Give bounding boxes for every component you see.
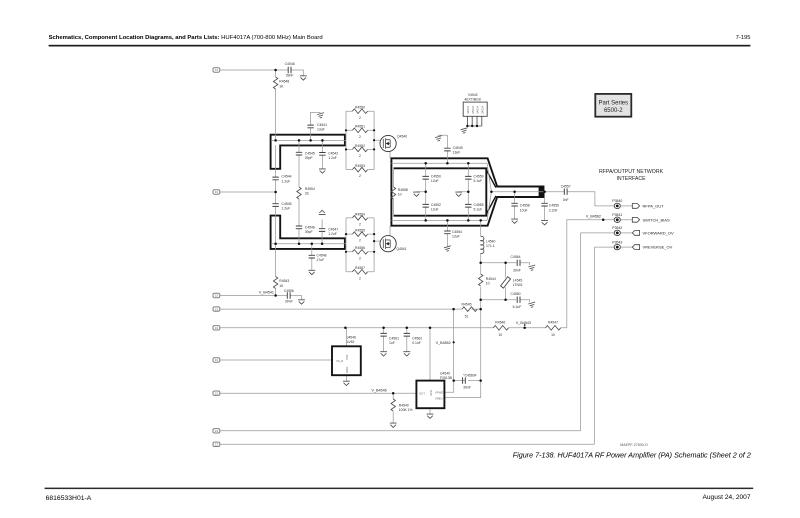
svg-text:*C4560F: *C4560F — [463, 374, 476, 378]
svg-text:6816533H01-A: 6816533H01-A — [46, 495, 92, 502]
svg-text:R4550: R4550 — [355, 106, 365, 110]
svg-text:R4546: R4546 — [495, 321, 505, 325]
svg-text:3A/CA: 3A/CA — [476, 106, 480, 114]
svg-text:2: 2 — [359, 174, 361, 178]
svg-text:R4543: R4543 — [279, 279, 289, 283]
svg-text:2: 2 — [359, 135, 361, 139]
svg-text:6500-2: 6500-2 — [604, 108, 623, 114]
svg-text:2: 2 — [359, 239, 361, 243]
svg-text:Q4541: Q4541 — [396, 247, 406, 251]
svg-text:C4564: C4564 — [511, 255, 521, 259]
svg-text:F2613B: F2613B — [440, 376, 453, 380]
svg-text:1K: 1K — [279, 284, 284, 288]
svg-text:Schematics, Component Location: Schematics, Component Location Diagrams,… — [49, 35, 323, 41]
svg-text:V_B4546: V_B4546 — [372, 389, 387, 393]
svg-text:INTERFACE: INTERFACE — [616, 176, 646, 182]
svg-text:1.2uF: 1.2uF — [282, 207, 291, 211]
svg-text:RFPA/OUTPUT NETWORK: RFPA/OUTPUT NETWORK — [599, 169, 664, 175]
svg-text:3A/CA: 3A/CA — [471, 106, 475, 114]
svg-text:R4548: R4548 — [279, 80, 289, 84]
svg-text:Q4540: Q4540 — [397, 134, 407, 138]
svg-text:C4544: C4544 — [282, 175, 292, 179]
svg-text:VREVERSE_OV: VREVERSE_OV — [643, 245, 673, 250]
svg-text:C4548: C4548 — [317, 253, 327, 257]
svg-text:17L-1: 17L-1 — [486, 244, 495, 248]
svg-text:10: 10 — [498, 333, 502, 337]
svg-text:P3543: P3543 — [612, 240, 622, 244]
svg-text:VFORWARD_OV: VFORWARD_OV — [643, 230, 674, 235]
svg-text:13uF: 13uF — [452, 234, 460, 238]
svg-text:V_B4552: V_B4552 — [436, 341, 451, 345]
svg-text:R4547: R4547 — [548, 321, 558, 325]
svg-text:2: 2 — [359, 223, 361, 227]
svg-text:C4560: C4560 — [511, 292, 521, 296]
svg-text:1.2uF: 1.2uF — [282, 179, 291, 183]
svg-text:R4552: R4552 — [355, 144, 365, 148]
svg-text:C4555: C4555 — [474, 203, 484, 207]
svg-text:3nF: 3nF — [563, 198, 569, 202]
svg-text:C4557: C4557 — [561, 184, 571, 188]
svg-text:2: 2 — [359, 276, 361, 280]
svg-text:1.2uF: 1.2uF — [328, 156, 337, 160]
svg-text:C4547: C4547 — [328, 228, 338, 232]
svg-text:4EXT/B/1K: 4EXT/B/1K — [464, 98, 482, 102]
svg-text:R4551: R4551 — [355, 125, 365, 129]
svg-text:POL: POL — [345, 354, 349, 360]
svg-text:2: 2 — [359, 256, 361, 260]
svg-text:C4561: C4561 — [389, 336, 399, 340]
svg-text:5.1uF: 5.1uF — [474, 179, 483, 183]
svg-text:LTN01: LTN01 — [513, 283, 523, 287]
svg-text:C4559: C4559 — [474, 175, 484, 179]
svg-text:1.2uF: 1.2uF — [328, 232, 337, 236]
svg-text:C4556: C4556 — [549, 204, 559, 208]
svg-text:R4553: R4553 — [355, 164, 365, 168]
svg-text:3A/CA: 3A/CA — [466, 106, 470, 114]
svg-text:13uF: 13uF — [317, 128, 325, 132]
svg-text:C4546: C4546 — [285, 62, 295, 66]
svg-text:C4546: C4546 — [305, 225, 315, 229]
svg-text:C4552: C4552 — [431, 203, 441, 207]
svg-text:39nF: 39nF — [463, 386, 471, 390]
svg-text:P3541: P3541 — [612, 213, 622, 217]
svg-text:LV62: LV62 — [347, 340, 355, 344]
svg-text:C4541: C4541 — [317, 123, 327, 127]
svg-text:V_B4543: V_B4543 — [516, 321, 531, 325]
svg-text:MAEPF-27830-O: MAEPF-27830-O — [620, 443, 648, 447]
svg-text:R4545: R4545 — [462, 302, 472, 306]
svg-text:1uF: 1uF — [389, 341, 395, 345]
svg-text:J4546: J4546 — [347, 335, 356, 339]
svg-text:39pF: 39pF — [305, 156, 313, 160]
svg-text:R4554: R4554 — [305, 187, 315, 191]
svg-text:R4544: R4544 — [486, 277, 496, 281]
svg-text:RFPA_OUT: RFPA_OUT — [643, 203, 665, 208]
svg-text:C4556: C4556 — [284, 289, 294, 293]
svg-text:1K: 1K — [279, 84, 284, 88]
svg-text:VPD: VPD — [429, 390, 433, 396]
svg-text:12uF: 12uF — [431, 179, 439, 183]
svg-text:VS_R: VS_R — [336, 359, 343, 363]
svg-text:R4540: R4540 — [399, 403, 409, 407]
svg-text:V_B4562: V_B4562 — [586, 215, 601, 219]
svg-text:SWITCH_BIAS: SWITCH_BIAS — [643, 217, 670, 222]
svg-text:3A/CA: 3A/CA — [480, 106, 484, 114]
svg-text:L4545: L4545 — [513, 278, 523, 282]
svg-text:August 24, 2007: August 24, 2007 — [702, 494, 750, 501]
svg-text:5.1uF: 5.1uF — [474, 208, 483, 212]
svg-text:C4558: C4558 — [520, 204, 530, 208]
svg-text:C4545: C4545 — [282, 202, 292, 206]
svg-text:C4542: C4542 — [328, 151, 338, 155]
svg-text:C4549: C4549 — [453, 146, 463, 150]
svg-text:13uF: 13uF — [453, 151, 461, 155]
svg-text:R4556: R4556 — [355, 246, 365, 250]
svg-text:P3542: P3542 — [612, 226, 622, 230]
svg-text:17uF: 17uF — [317, 258, 325, 262]
svg-text:39nF: 39nF — [286, 74, 294, 78]
svg-text:R4554: R4554 — [355, 212, 365, 216]
svg-text:Figure 7-138. HUF4017A RF Powe: Figure 7-138. HUF4017A RF Power Amplifie… — [513, 450, 751, 459]
svg-text:V_B4541: V_B4541 — [259, 291, 274, 295]
svg-text:VREV: VREV — [435, 397, 443, 401]
svg-text:R4557: R4557 — [355, 266, 365, 270]
svg-text:Part Series: Part Series — [598, 100, 628, 106]
svg-text:12uF: 12uF — [431, 208, 439, 212]
svg-text:10uF: 10uF — [520, 208, 528, 212]
svg-text:GND: GND — [345, 367, 349, 373]
svg-text:C4554: C4554 — [452, 230, 462, 234]
svg-text:R4555: R4555 — [355, 229, 365, 233]
svg-text:V4542: V4542 — [468, 93, 478, 97]
svg-text:7-195: 7-195 — [736, 35, 751, 41]
svg-text:P3540: P3540 — [612, 199, 622, 203]
svg-text:51: 51 — [465, 314, 469, 318]
svg-text:U4540: U4540 — [440, 371, 450, 375]
svg-text:R4558: R4558 — [398, 188, 408, 192]
svg-text:100K 1%: 100K 1% — [399, 408, 413, 412]
svg-text:10: 10 — [486, 282, 490, 286]
svg-text:0.1uF: 0.1uF — [412, 341, 421, 345]
svg-text:33: 33 — [305, 192, 309, 196]
svg-text:2.2nF: 2.2nF — [549, 208, 558, 212]
svg-text:39nF: 39nF — [513, 268, 521, 272]
svg-text:VFWD: VFWD — [435, 391, 443, 395]
svg-text:C4550: C4550 — [431, 175, 441, 179]
svg-text:39nF: 39nF — [285, 300, 293, 304]
svg-text:39pF: 39pF — [305, 230, 313, 234]
svg-text:C4545: C4545 — [305, 151, 315, 155]
svg-text:C4562: C4562 — [412, 336, 422, 340]
svg-text:6.1uF: 6.1uF — [513, 305, 522, 309]
svg-text:OUT: OUT — [419, 392, 425, 396]
svg-text:2: 2 — [359, 154, 361, 158]
svg-text:L4540: L4540 — [486, 239, 496, 243]
svg-text:10: 10 — [551, 333, 555, 337]
svg-text:2: 2 — [359, 116, 361, 120]
svg-text:10: 10 — [398, 193, 402, 197]
